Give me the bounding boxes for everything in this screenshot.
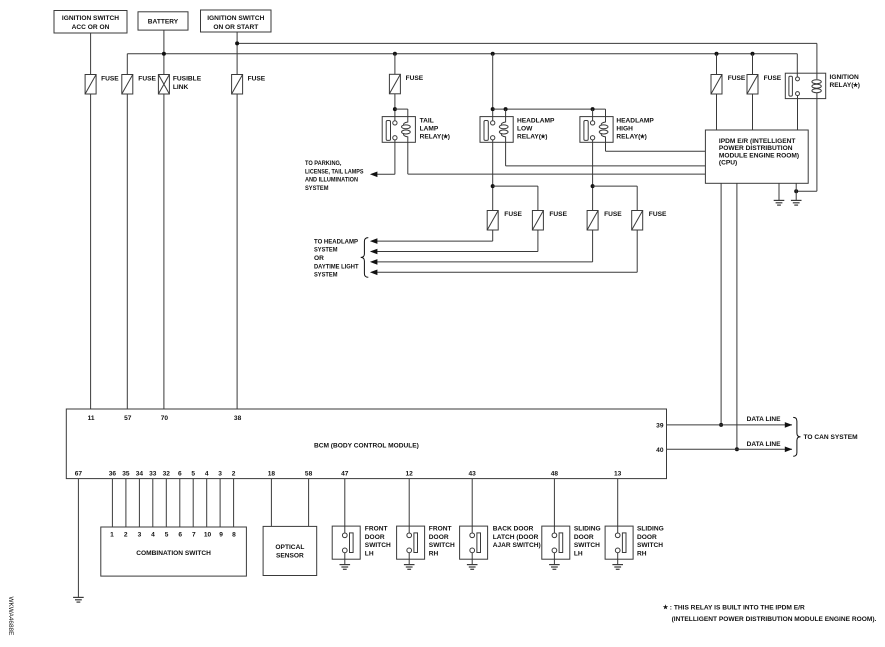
- svg-text:RELAY(: RELAY(: [517, 134, 542, 141]
- svg-text:58: 58: [305, 471, 313, 478]
- svg-text:BACK DOOR: BACK DOOR: [493, 526, 534, 533]
- svg-text:39: 39: [656, 423, 664, 430]
- svg-text:TO CAN SYSTEM: TO CAN SYSTEM: [804, 434, 859, 441]
- svg-text:POWER DISTRIBUTION: POWER DISTRIBUTION: [719, 145, 793, 152]
- svg-text:6: 6: [178, 471, 182, 478]
- svg-text:(CPU): (CPU): [719, 160, 737, 167]
- svg-text:SWITCH: SWITCH: [429, 542, 455, 549]
- svg-text:FRONT: FRONT: [429, 526, 452, 533]
- svg-text:35: 35: [122, 471, 130, 478]
- svg-text:AJAR SWITCH): AJAR SWITCH): [493, 542, 541, 549]
- svg-text:8: 8: [232, 531, 236, 538]
- svg-text:38: 38: [234, 415, 242, 422]
- svg-text:DATA LINE: DATA LINE: [747, 441, 782, 448]
- svg-text:): ): [645, 134, 647, 141]
- svg-text:OR: OR: [314, 255, 324, 262]
- svg-text:LH: LH: [574, 551, 583, 558]
- svg-text:FUSE: FUSE: [549, 211, 567, 218]
- svg-text:LINK: LINK: [173, 84, 189, 91]
- svg-text:FUSE: FUSE: [728, 75, 746, 82]
- svg-text:1: 1: [110, 531, 114, 538]
- svg-text:IGNITION: IGNITION: [830, 74, 860, 81]
- svg-text:SYSTEM: SYSTEM: [305, 185, 329, 192]
- svg-text:TAIL: TAIL: [420, 117, 434, 124]
- svg-text:IGNITION SWITCH: IGNITION SWITCH: [62, 15, 119, 22]
- svg-text:9: 9: [219, 531, 223, 538]
- svg-text:2: 2: [232, 471, 236, 478]
- svg-text:7: 7: [192, 531, 196, 538]
- svg-text:DATA LINE: DATA LINE: [747, 416, 782, 423]
- svg-text:FUSE: FUSE: [604, 211, 622, 218]
- svg-text:): ): [858, 82, 860, 89]
- svg-text:32: 32: [163, 471, 171, 478]
- svg-text:IPDM E/R (INTELLIGENT: IPDM E/R (INTELLIGENT: [719, 138, 796, 145]
- svg-text:SENSOR: SENSOR: [276, 552, 304, 559]
- svg-text:3: 3: [218, 471, 222, 478]
- svg-text:(INTELLIGENT POWER DISTRIBUTIO: (INTELLIGENT POWER DISTRIBUTION MODULE E…: [672, 616, 877, 623]
- svg-text:DOOR: DOOR: [637, 534, 657, 541]
- svg-text:57: 57: [124, 415, 132, 422]
- svg-text:4: 4: [205, 471, 209, 478]
- svg-text:HEADLAMP: HEADLAMP: [616, 117, 654, 124]
- svg-text:3: 3: [138, 531, 142, 538]
- svg-text:AND ILLUMINATION: AND ILLUMINATION: [305, 177, 358, 184]
- svg-text:47: 47: [341, 471, 349, 478]
- svg-text:LATCH (DOOR: LATCH (DOOR: [493, 534, 539, 541]
- svg-text:11: 11: [88, 415, 95, 422]
- svg-text:70: 70: [161, 415, 169, 422]
- svg-text:RH: RH: [429, 551, 439, 558]
- svg-text:HEADLAMP: HEADLAMP: [517, 117, 555, 124]
- svg-text:OPTICAL: OPTICAL: [275, 544, 304, 551]
- svg-text:SWITCH: SWITCH: [365, 542, 391, 549]
- svg-text:SLIDING: SLIDING: [637, 526, 664, 533]
- svg-text:FUSE: FUSE: [138, 76, 156, 83]
- svg-text:SWITCH: SWITCH: [574, 542, 600, 549]
- svg-text:BATTERY: BATTERY: [148, 19, 179, 26]
- svg-text:FUSE: FUSE: [406, 75, 424, 82]
- svg-text:ON OR START: ON OR START: [213, 24, 258, 31]
- svg-text:4: 4: [151, 531, 155, 538]
- svg-text:RELAY(: RELAY(: [616, 134, 641, 141]
- svg-text:WKWA4688E: WKWA4688E: [7, 597, 14, 636]
- svg-text:SLIDING: SLIDING: [574, 526, 601, 533]
- svg-text:DOOR: DOOR: [574, 534, 594, 541]
- svg-text:12: 12: [406, 471, 414, 478]
- svg-text:RELAY(: RELAY(: [830, 82, 855, 89]
- svg-text:5: 5: [165, 531, 169, 538]
- svg-text:10: 10: [204, 531, 212, 538]
- svg-text:RH: RH: [637, 551, 647, 558]
- svg-text:COMBINATION SWITCH: COMBINATION SWITCH: [136, 550, 211, 557]
- svg-text:LAMP: LAMP: [420, 125, 439, 132]
- svg-text:SYSTEM: SYSTEM: [314, 247, 338, 254]
- svg-text:SWITCH: SWITCH: [637, 542, 663, 549]
- svg-text:ACC OR ON: ACC OR ON: [72, 24, 110, 31]
- svg-text:FRONT: FRONT: [365, 526, 388, 533]
- svg-text:DOOR: DOOR: [429, 534, 449, 541]
- svg-text:: THIS RELAY IS BUILT INTO THE: : THIS RELAY IS BUILT INTO THE IPDM E/R: [670, 604, 805, 611]
- svg-text:TO HEADLAMP: TO HEADLAMP: [314, 238, 359, 245]
- svg-text:RELAY(: RELAY(: [420, 134, 445, 141]
- svg-text:BCM (BODY CONTROL MODULE): BCM (BODY CONTROL MODULE): [314, 442, 419, 449]
- svg-text:67: 67: [75, 471, 83, 478]
- svg-text:FUSE: FUSE: [101, 76, 119, 83]
- svg-text:LH: LH: [365, 551, 374, 558]
- svg-text:FUSE: FUSE: [504, 211, 522, 218]
- svg-text:5: 5: [191, 471, 195, 478]
- svg-text:LOW: LOW: [517, 125, 533, 132]
- svg-text:18: 18: [268, 471, 276, 478]
- svg-text:6: 6: [178, 531, 182, 538]
- svg-text:34: 34: [136, 471, 144, 478]
- svg-text:LICENSE, TAIL LAMPS: LICENSE, TAIL LAMPS: [305, 168, 364, 175]
- svg-text:13: 13: [614, 471, 622, 478]
- svg-text:33: 33: [149, 471, 157, 478]
- svg-text:HIGH: HIGH: [616, 125, 633, 132]
- svg-text:FUSE: FUSE: [649, 211, 667, 218]
- svg-text:36: 36: [109, 471, 117, 478]
- svg-text:TO PARKING,: TO PARKING,: [305, 160, 342, 167]
- svg-text:48: 48: [551, 471, 559, 478]
- svg-text:FUSE: FUSE: [248, 76, 266, 83]
- svg-text:DAYTIME LIGHT: DAYTIME LIGHT: [314, 263, 359, 270]
- svg-text:DOOR: DOOR: [365, 534, 385, 541]
- svg-text:FUSIBLE: FUSIBLE: [173, 76, 202, 83]
- svg-text:): ): [448, 134, 450, 141]
- svg-text:43: 43: [469, 471, 477, 478]
- svg-text:40: 40: [656, 447, 664, 454]
- svg-text:): ): [545, 134, 547, 141]
- svg-text:2: 2: [124, 531, 128, 538]
- svg-text:FUSE: FUSE: [764, 75, 782, 82]
- svg-text:IGNITION SWITCH: IGNITION SWITCH: [207, 15, 264, 22]
- svg-text:MODULE ENGINE ROOM): MODULE ENGINE ROOM): [719, 152, 799, 159]
- svg-text:SYSTEM: SYSTEM: [314, 272, 338, 279]
